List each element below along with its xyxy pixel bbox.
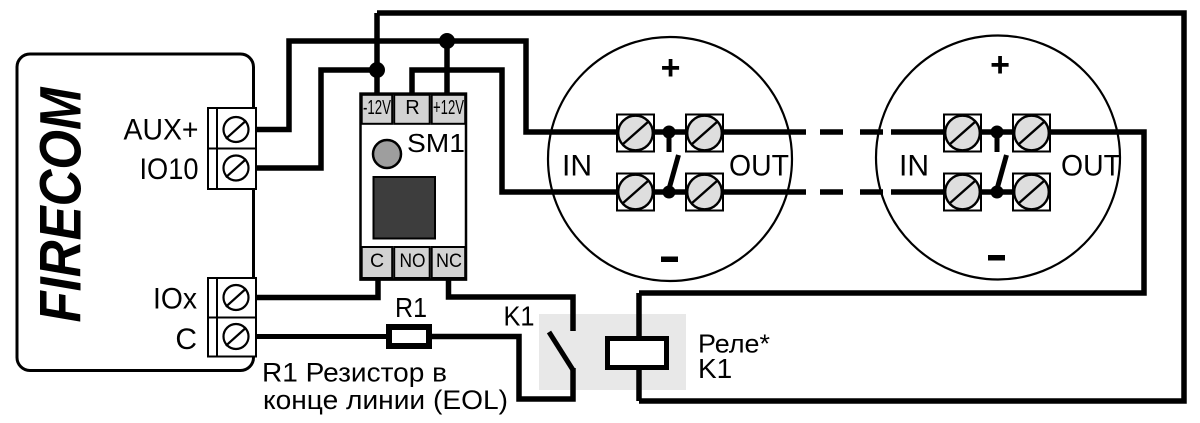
screw C [224, 324, 249, 349]
wire -12V riser [374, 13, 380, 96]
wire D2 top between terminals [979, 129, 1015, 135]
svg-text:FIRECOM: FIRECOM [29, 86, 94, 322]
wire dash top 2 [860, 129, 883, 135]
svg-text:R: R [405, 97, 419, 119]
terminal NC [432, 247, 466, 278]
resistor R1 [389, 327, 429, 346]
junction dot node +12V [439, 33, 455, 49]
svg-text:K1: K1 [504, 301, 535, 332]
component block dark [374, 177, 436, 239]
svg-text:+: + [990, 46, 1010, 84]
svg-text:+: + [661, 49, 681, 87]
label D1 minus [661, 257, 678, 263]
svg-text:IN: IN [562, 150, 592, 183]
wire D1 OUT bottom [722, 189, 806, 195]
terminal -12V [362, 95, 393, 124]
svg-text:-12V: -12V [363, 97, 391, 119]
junction dot node -12V [369, 62, 385, 78]
detector D2 circle [876, 36, 1120, 280]
screw AUX+ [224, 117, 249, 142]
wire D2 bottom between terminals [979, 189, 1015, 195]
svg-text:IN: IN [899, 150, 929, 183]
wire D2 IN bottom [891, 189, 946, 195]
wire +12V riser [444, 41, 450, 96]
module SM1 body [361, 94, 467, 280]
wire R to detector D1 IN- [412, 70, 618, 192]
svg-text:OUT: OUT [1061, 150, 1121, 183]
detector D2 terminal out- [1013, 174, 1050, 211]
svg-text:R1 Резистор в: R1 Резистор в [262, 358, 447, 388]
wire IOx to SM1 C [255, 280, 378, 298]
detector D1 terminal out- [686, 174, 723, 211]
screw IOx [224, 285, 249, 310]
svg-text:NC: NC [436, 250, 462, 272]
detector D1 terminal out+ [686, 115, 723, 152]
svg-text:AUX+: AUX+ [124, 113, 199, 146]
wire D2 IN top [891, 129, 946, 135]
svg-text:SM1: SM1 [407, 128, 465, 158]
panel FIRECOM [17, 54, 254, 371]
terminal block AUX+/IO10 [208, 108, 256, 189]
wire IO10 to -12V node [255, 70, 377, 168]
wire top loop (outer) [377, 13, 1184, 401]
detector D1 contact [663, 126, 679, 199]
svg-text:NO: NO [400, 250, 426, 272]
wire D1 OUT top [722, 129, 806, 135]
wire D1 bottom between terminals [652, 189, 688, 195]
detector D2 terminal out+ [1013, 115, 1050, 152]
wire D2 OUT to relay coil [639, 132, 1144, 293]
svg-text:IOx: IOx [153, 282, 197, 315]
detector D2 terminal in+ [944, 115, 981, 152]
label D2 minus [988, 255, 1005, 261]
wire relay coil vertical [636, 293, 642, 401]
terminal NO [394, 247, 430, 278]
LED SM1 [373, 140, 401, 168]
svg-text:R1: R1 [395, 292, 427, 323]
terminal C [362, 247, 393, 278]
wire R1 to switch K1 bottom [432, 337, 573, 400]
wire dash top 1 [820, 129, 843, 135]
wire D1 top between terminals [652, 129, 688, 135]
detector D1 terminal in- [617, 174, 654, 211]
wire dash bottom 1 [820, 189, 843, 195]
terminal +12V [432, 95, 466, 124]
detector D1 terminal in+ [617, 115, 654, 152]
svg-text:C: C [175, 323, 197, 356]
terminal block IOx/C [208, 278, 256, 357]
screw IO10 [224, 156, 249, 181]
relay shaded zone [539, 314, 686, 390]
detector D1 circle [548, 37, 792, 281]
svg-text:K1: K1 [698, 353, 732, 384]
wire AUX+ to detector D1 IN+ [255, 41, 618, 132]
wire SM1 NC to switch K1 top [449, 280, 574, 331]
svg-text:конце линии (EOL): конце линии (EOL) [263, 385, 508, 415]
svg-text:IO10: IO10 [140, 153, 199, 186]
wire C to resistor R1 [255, 334, 389, 339]
wire dash bottom 2 [860, 189, 883, 195]
detector D2 terminal in- [944, 174, 981, 211]
relay coil K1 [608, 339, 667, 368]
svg-text:OUT: OUT [729, 150, 789, 183]
svg-text:+12V: +12V [433, 97, 464, 119]
terminal R [394, 95, 430, 124]
detector D2 contact [991, 126, 1007, 199]
switch K1 blade [549, 332, 573, 370]
svg-text:C: C [370, 250, 384, 272]
